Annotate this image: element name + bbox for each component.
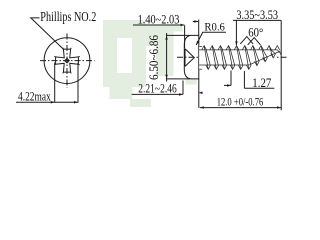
svg-text:60°: 60° (248, 24, 263, 39)
svg-text:12.0 +0/-0.76: 12.0 +0/-0.76 (217, 95, 264, 109)
svg-text:3.35~3.53: 3.35~3.53 (236, 7, 278, 22)
svg-text:1.27: 1.27 (252, 75, 271, 90)
svg-text:R0.6: R0.6 (204, 19, 225, 33)
svg-text:2.21~2.46: 2.21~2.46 (138, 82, 176, 96)
svg-text:6.50~6.86: 6.50~6.86 (146, 35, 161, 80)
svg-text:1.40~2.03: 1.40~2.03 (138, 11, 180, 26)
svg-text:Phillips NO.2: Phillips NO.2 (40, 9, 96, 24)
svg-text:4.22max: 4.22max (18, 89, 51, 104)
